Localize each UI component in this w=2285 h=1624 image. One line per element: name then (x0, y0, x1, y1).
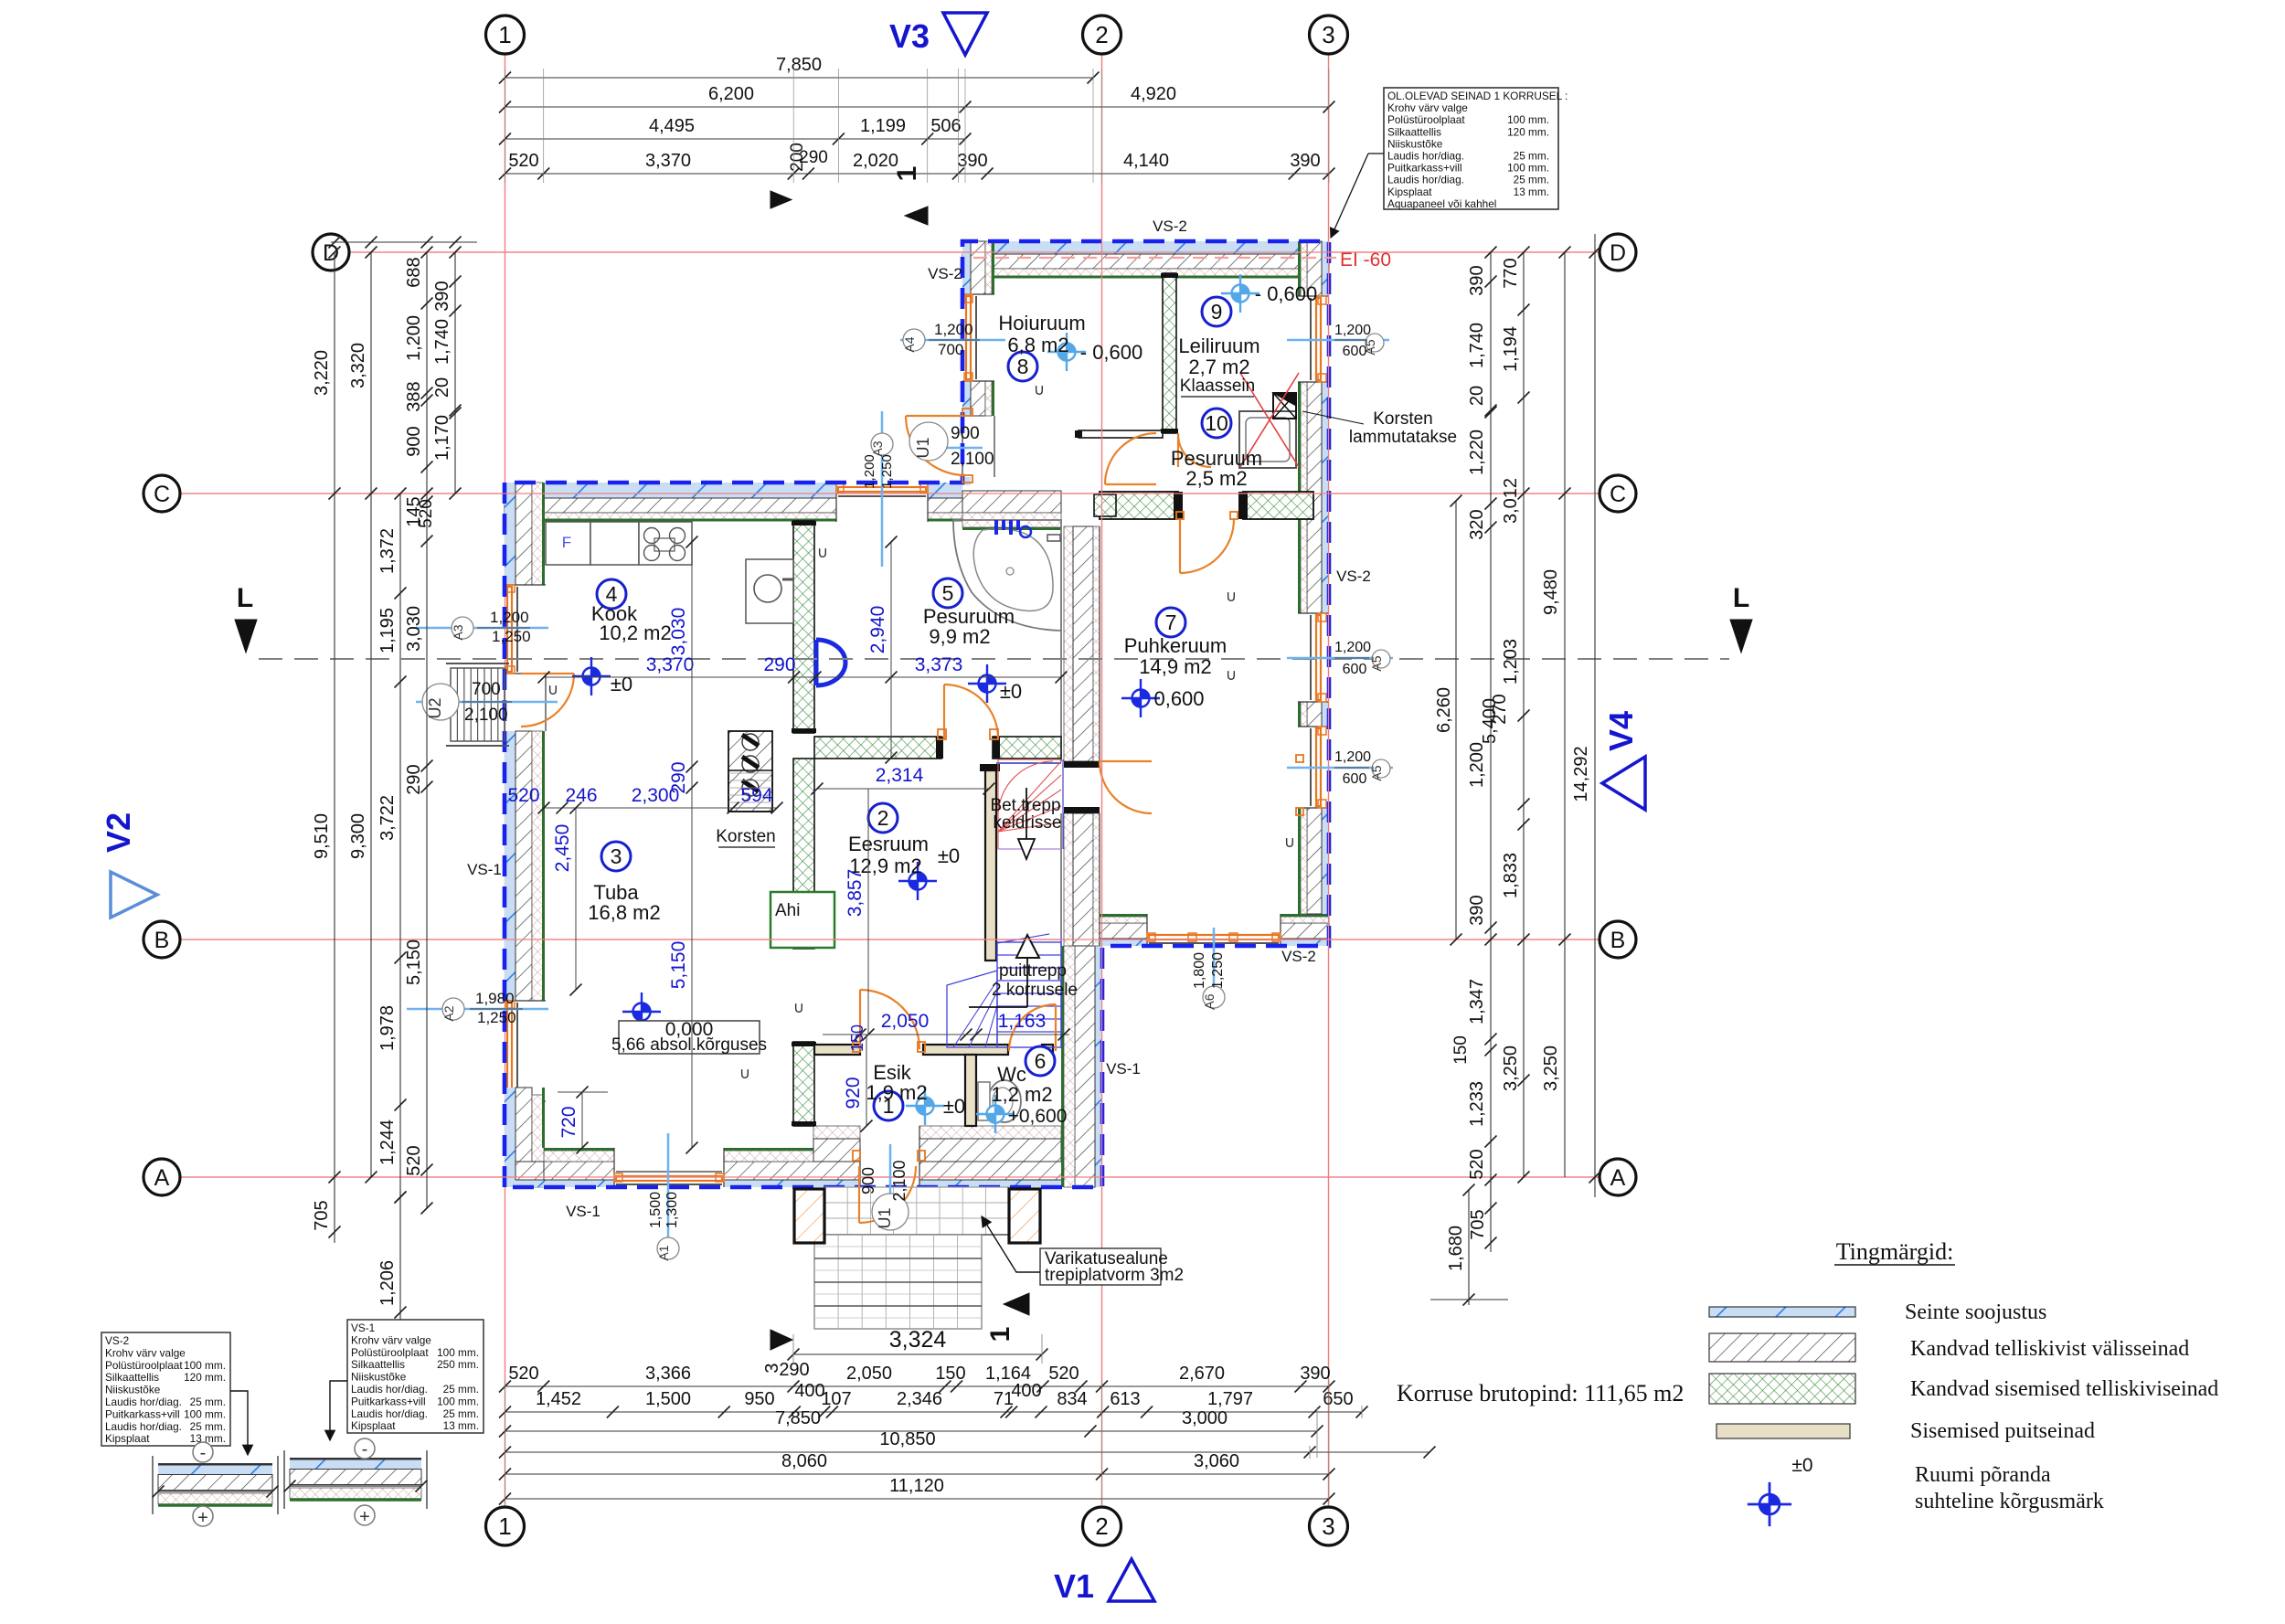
left chain 2 (370, 252, 372, 1177)
svg-text:3,370: 3,370 (645, 151, 691, 171)
legend wood wall (1716, 1424, 1850, 1438)
svg-text:U2: U2 (426, 697, 444, 718)
green wall W4 (kook|bath) (793, 521, 814, 733)
beige wall stair left (985, 770, 996, 961)
svg-text:390: 390 (1290, 151, 1320, 171)
grid row B (180, 939, 1599, 940)
svg-text:4,140: 4,140 (1123, 151, 1169, 171)
svg-text:5,66 absol.kõrguses: 5,66 absol.kõrguses (611, 1035, 767, 1055)
svg-text:1,9 m2: 1,9 m2 (866, 1081, 927, 1104)
svg-text:1,250: 1,250 (1210, 952, 1226, 989)
svg-text:Klaassein: Klaassein (1180, 377, 1255, 396)
A5 top axis (1287, 339, 1389, 342)
svg-text:1: 1 (498, 1513, 511, 1540)
svg-text:520: 520 (507, 785, 539, 806)
grid circle 3 bottom (1310, 1507, 1348, 1545)
svg-text:1,194: 1,194 (1501, 326, 1521, 372)
svg-text:1,195: 1,195 (377, 608, 398, 653)
svg-text:∪: ∪ (739, 1065, 750, 1082)
svg-text:688: 688 (404, 257, 424, 287)
grid circle 3 top (1310, 16, 1348, 54)
wall: puhkeruum bottom (exterior VS-2) (1100, 939, 1147, 946)
svg-text:705: 705 (312, 1200, 332, 1230)
svg-text:Laudis hor/diag.: Laudis hor/diag. (351, 1407, 428, 1420)
svg-text:2,314: 2,314 (876, 765, 924, 786)
Ahi stove (771, 892, 834, 948)
svg-text:9,510: 9,510 (312, 813, 332, 859)
svg-text:Tingmärgid:: Tingmärgid: (1836, 1238, 1954, 1265)
svg-text:∪: ∪ (1226, 666, 1237, 684)
svg-text:∪: ∪ (1284, 833, 1295, 851)
green wall W6 (below chimney) (793, 759, 814, 949)
svg-text:Krohv värv valge: Krohv värv valge (1387, 101, 1468, 114)
svg-text:3,250: 3,250 (1541, 1046, 1561, 1091)
porch post right (1009, 1189, 1040, 1243)
green corner block at bath top right (1094, 494, 1116, 516)
bottom chain row1 (505, 1385, 1330, 1387)
corner joint bottom-left (505, 1088, 515, 1187)
svg-text:∪: ∪ (1034, 381, 1045, 398)
svg-text:Eesruum: Eesruum (848, 833, 929, 855)
right chain 14292 (1594, 234, 1596, 1197)
svg-text:1,500: 1,500 (648, 1192, 664, 1228)
right chain coarse (1564, 252, 1566, 1177)
blue vert dim x975 bath (890, 542, 892, 758)
svg-text:5: 5 (942, 581, 954, 605)
svg-text:4,920: 4,920 (1131, 84, 1176, 104)
svg-text:2,100: 2,100 (951, 450, 994, 469)
svg-text:3,000: 3,000 (1182, 1408, 1228, 1428)
glass wall Klaassein (1079, 430, 1163, 438)
shower Pesuruum 2.5 (1239, 411, 1296, 468)
svg-text:keldrisse: keldrisse (994, 813, 1062, 833)
svg-text:390: 390 (432, 281, 452, 311)
svg-text:C: C (154, 482, 170, 507)
stair up arrow (1026, 958, 1028, 1007)
window A1 (bottom wall) (613, 1148, 615, 1187)
wall: lower right (exterior) (1095, 946, 1102, 1187)
blue dims esik (823, 1034, 1069, 1035)
wall: wing top (exterior VS-2) (962, 241, 1329, 254)
svg-text:2,050: 2,050 (881, 1011, 930, 1032)
svg-text:770: 770 (1501, 258, 1521, 288)
room 3 Tuba (601, 842, 631, 871)
door jambs orange (938, 729, 946, 739)
svg-text:Kandvad telliskivist välisse: Kandvad telliskivist välisseinad (1910, 1337, 2189, 1361)
wall: main block bottom (exterior VS-1) (544, 1180, 614, 1187)
svg-text:9,9 m2: 9,9 m2 (929, 625, 990, 648)
svg-text:Laudis hor/diag.: Laudis hor/diag. (351, 1383, 428, 1396)
svg-text:520: 520 (1048, 1364, 1079, 1384)
svg-text:Ahi: Ahi (775, 901, 800, 920)
blue dims row y884 (544, 807, 777, 809)
svg-text:3,366: 3,366 (645, 1364, 691, 1384)
svg-text:1: 1 (985, 1327, 1015, 1343)
svg-text:3: 3 (1322, 1513, 1334, 1540)
svg-text:290: 290 (763, 654, 795, 675)
left below A dims (334, 1177, 335, 1243)
door U1 entrance opening (859, 1148, 861, 1187)
door puhkeruum side (1100, 760, 1152, 762)
svg-text:7: 7 (1165, 610, 1177, 634)
room 7 Puhkeruum (1156, 608, 1185, 637)
svg-text:107: 107 (821, 1389, 851, 1409)
svg-text:lammutatakse: lammutatakse (1349, 428, 1457, 447)
svg-text:2,346: 2,346 (897, 1389, 942, 1409)
svg-text:6,8 m2: 6,8 m2 (1007, 334, 1068, 356)
right chain mid (1523, 252, 1525, 1177)
svg-text:Niiskustõke: Niiskustõke (105, 1384, 161, 1396)
elev puhkeruum (1121, 679, 1160, 717)
wall: wing left (exterior VS-2) (962, 241, 971, 294)
svg-text:613: 613 (1110, 1389, 1140, 1409)
svg-text:150: 150 (1451, 1035, 1471, 1065)
svg-text:VS-2: VS-2 (1153, 218, 1187, 235)
top dim 7850 (505, 77, 1094, 79)
svg-text:320: 320 (1467, 509, 1487, 539)
svg-text:VS-2: VS-2 (105, 1334, 129, 1347)
blue door symbol bath (816, 640, 845, 685)
svg-text:1,200: 1,200 (1334, 749, 1371, 765)
bottom dim 11120 (505, 1498, 1330, 1500)
door bath (eesruum->pesuruum) (943, 685, 945, 738)
svg-text:3: 3 (611, 844, 622, 868)
svg-text:Laudis hor/diag.: Laudis hor/diag. (1387, 174, 1464, 186)
svg-text:9: 9 (1211, 300, 1223, 324)
A3 left axis (416, 627, 548, 630)
svg-text:1,833: 1,833 (1501, 853, 1521, 898)
svg-text:Puitkarkass+vill: Puitkarkass+vill (105, 1407, 180, 1420)
svg-text:Niiskustõke: Niiskustõke (1387, 137, 1443, 150)
svg-text:1,220: 1,220 (1467, 430, 1487, 475)
svg-text:A5: A5 (1369, 765, 1384, 780)
svg-text:290: 290 (668, 761, 689, 793)
svg-text:290: 290 (779, 1360, 809, 1380)
svg-text:1: 1 (892, 166, 922, 182)
svg-text:Laudis hor/diag.: Laudis hor/diag. (1387, 150, 1464, 163)
window A3 (top wall) (835, 483, 837, 522)
bath tap right (1047, 535, 1060, 541)
svg-text:Korruse brutopind: 111,65 m2: Korruse brutopind: 111,65 m2 (1397, 1380, 1684, 1406)
green wall row C segments (wing bottom) (1100, 492, 1178, 519)
svg-text:1,200: 1,200 (490, 609, 529, 626)
grid circle 2 bottom (1083, 1507, 1121, 1545)
svg-text:520: 520 (1467, 1149, 1487, 1179)
corner bath (953, 520, 1061, 631)
elev eesruum (898, 862, 937, 900)
svg-text:±0: ±0 (938, 844, 960, 867)
svg-text:900: 900 (404, 426, 424, 456)
blue vert dim x757 (691, 542, 693, 808)
varikatus label (1040, 1248, 1161, 1285)
svg-text:VS-2: VS-2 (928, 265, 962, 282)
A1 axis (667, 1133, 670, 1254)
spec box VS-1 (347, 1320, 484, 1433)
svg-text:1,797: 1,797 (1207, 1389, 1253, 1409)
svg-text:100 mm.: 100 mm. (437, 1346, 479, 1359)
red X (korsten lammutatakse) (1240, 373, 1299, 467)
svg-text:Korsten: Korsten (1373, 409, 1432, 429)
legend green wall (1709, 1374, 1855, 1404)
svg-text:+: + (197, 1508, 208, 1528)
green wall W5 bath bottom (814, 737, 941, 759)
svg-text:520: 520 (404, 1145, 424, 1175)
svg-text:Puitkarkass+vill: Puitkarkass+vill (351, 1395, 426, 1407)
svg-text:600: 600 (1343, 662, 1367, 677)
grid circle 2 top (1083, 16, 1121, 54)
svg-text:F: F (562, 534, 571, 551)
window A5 top (1298, 295, 1329, 297)
svg-text:400: 400 (1011, 1381, 1041, 1401)
svg-text:120 mm.: 120 mm. (1507, 125, 1549, 138)
svg-text:120 mm.: 120 mm. (184, 1371, 226, 1384)
svg-text:6: 6 (1035, 1049, 1047, 1073)
svg-text:3,722: 3,722 (377, 795, 398, 841)
svg-text:-: - (200, 1443, 207, 1463)
svg-text:3,060: 3,060 (1194, 1451, 1239, 1471)
svg-text:2,050: 2,050 (846, 1364, 892, 1384)
svg-text:920: 920 (843, 1077, 864, 1109)
green wall Esik left (793, 1042, 814, 1126)
svg-text:3,857: 3,857 (845, 869, 866, 918)
svg-text:1: 1 (498, 21, 511, 48)
svg-text:3,012: 3,012 (1501, 478, 1521, 524)
svg-text:520: 520 (508, 1364, 538, 1384)
U1 entrance axis (889, 1144, 892, 1217)
svg-text:1,500: 1,500 (645, 1389, 691, 1409)
grid col 3 (1328, 54, 1330, 1507)
svg-text:VS-1: VS-1 (566, 1203, 600, 1220)
svg-text:L: L (237, 583, 253, 613)
svg-text:Aquapaneel või kahhel: Aquapaneel või kahhel (1387, 197, 1496, 210)
svg-text:1,978: 1,978 (377, 1005, 398, 1051)
svg-text:2,450: 2,450 (552, 824, 573, 873)
svg-text:11,120: 11,120 (889, 1476, 944, 1496)
svg-text:5,150: 5,150 (404, 939, 424, 985)
beige wall Esik/Wc top-right (923, 1045, 1008, 1055)
svg-text:1,200: 1,200 (1467, 742, 1487, 788)
svg-text:A: A (154, 1165, 170, 1191)
legend insulation (1709, 1307, 1855, 1317)
elev tuba (622, 992, 661, 1031)
top dim 4495/1199/506 (505, 138, 966, 140)
old chimney box (1273, 393, 1296, 419)
wall section VS-2 sample (152, 1456, 154, 1514)
svg-text:1,740: 1,740 (1467, 323, 1487, 368)
svg-text:U1: U1 (876, 1207, 894, 1228)
svg-text:1,200: 1,200 (1334, 323, 1371, 338)
svg-text:A4: A4 (902, 336, 917, 352)
svg-text:1,452: 1,452 (536, 1389, 581, 1409)
svg-text:A1: A1 (656, 1245, 671, 1260)
svg-text:1,250: 1,250 (477, 1009, 516, 1026)
wall: wing/puhkeruum right (exterior VS-2) (1322, 241, 1329, 296)
elev bath (968, 664, 1006, 703)
door leiliruum (1177, 433, 1179, 467)
svg-text:1,199: 1,199 (860, 116, 906, 136)
svg-text:290: 290 (404, 764, 424, 794)
svg-text:A3: A3 (870, 440, 885, 456)
svg-text:390: 390 (957, 151, 987, 171)
legend brick wall (1709, 1333, 1855, 1362)
left chain 5 (454, 252, 456, 494)
elev hoiuruum (1047, 333, 1086, 371)
svg-text:100 mm.: 100 mm. (1507, 113, 1549, 126)
svg-text:- 0,600: - 0,600 (1255, 282, 1318, 305)
svg-text:L: L (1733, 583, 1749, 613)
svg-text:1,2 m2: 1,2 m2 (991, 1083, 1052, 1106)
svg-text:1,200: 1,200 (934, 321, 973, 338)
svg-text:1,740: 1,740 (432, 319, 452, 365)
wc toilet (988, 1080, 1021, 1122)
grid row A (180, 1176, 1599, 1178)
svg-text:Korsten: Korsten (716, 827, 775, 846)
elev esik (906, 1087, 944, 1125)
svg-text:388: 388 (404, 381, 424, 411)
window A3 (left wall) (505, 584, 546, 586)
svg-text:Laudis hor/diag.: Laudis hor/diag. (105, 1420, 182, 1433)
wall: main block left (exterior VS-1) (505, 483, 515, 585)
svg-text:20: 20 (1467, 386, 1487, 406)
window A2 (left wall) (505, 1000, 546, 1002)
svg-text:V4: V4 (1602, 711, 1640, 751)
bottom chain row2 (505, 1411, 1363, 1413)
svg-text:10: 10 (1205, 411, 1228, 435)
svg-text:250 mm.: 250 mm. (437, 1358, 479, 1371)
wall: bath top (under wing) (962, 491, 1061, 513)
svg-text:7,850: 7,850 (775, 1408, 821, 1428)
svg-text:5,400: 5,400 (1480, 698, 1500, 744)
svg-text:25 mm.: 25 mm. (1514, 150, 1549, 163)
svg-text:2 korrusele: 2 korrusele (992, 981, 1078, 1000)
wall section VS-1 sample (283, 1450, 285, 1509)
svg-text:±0: ±0 (1791, 1455, 1812, 1476)
svg-text:600: 600 (1343, 771, 1367, 787)
bottom dim 3324 (793, 1353, 1042, 1355)
svg-text:25 mm.: 25 mm. (1514, 174, 1549, 186)
svg-text:720: 720 (558, 1106, 579, 1138)
door pesuruum 2.5 (1105, 483, 1156, 485)
svg-text:16,8 m2: 16,8 m2 (588, 901, 661, 924)
chimney block Korsten (728, 731, 772, 812)
svg-text:9,300: 9,300 (348, 813, 368, 859)
svg-text:9,480: 9,480 (1541, 569, 1561, 615)
svg-text:A5: A5 (1369, 655, 1384, 671)
svg-text:650: 650 (1323, 1389, 1353, 1409)
svg-text:25 mm.: 25 mm. (443, 1407, 479, 1420)
svg-text:1,244: 1,244 (377, 1120, 398, 1165)
svg-text:8: 8 (1017, 355, 1029, 378)
svg-text:Silkaattellis: Silkaattellis (105, 1371, 159, 1384)
svg-text:Hoiuruum: Hoiuruum (998, 312, 1085, 334)
elev kook (572, 657, 611, 695)
svg-text:400: 400 (794, 1381, 824, 1401)
svg-text:506: 506 (930, 116, 961, 136)
EI-60 pink dashed fire line (973, 257, 1336, 259)
grid circle B right (1599, 921, 1636, 958)
right below A (1490, 1177, 1492, 1252)
svg-text:14,9 m2: 14,9 m2 (1139, 655, 1212, 678)
svg-text:A2: A2 (441, 1005, 456, 1021)
U2 axis (416, 701, 558, 704)
svg-text:6,260: 6,260 (1434, 687, 1454, 733)
svg-text:D: D (1610, 240, 1626, 266)
window A5 low (1298, 726, 1329, 727)
svg-text:VS-1: VS-1 (351, 1321, 375, 1334)
svg-text:900: 900 (859, 1167, 877, 1194)
section line L (259, 658, 1729, 660)
svg-text:suhteline kõrgusmärk: suhteline kõrgusmärk (1915, 1490, 2104, 1513)
concrete basement stair (1062, 759, 1064, 849)
room 2 Eesruum (868, 803, 898, 833)
beige wall Esik top-left (814, 1045, 860, 1055)
svg-text:puittrepp: puittrepp (999, 961, 1067, 981)
svg-text:+0,600: +0,600 (1008, 1106, 1068, 1127)
porch steps (814, 1235, 982, 1329)
svg-text:VS-2: VS-2 (1336, 568, 1371, 585)
blue dim 2314 (817, 788, 989, 790)
svg-text:V2: V2 (100, 812, 137, 853)
svg-text:Polüstüroolplaat: Polüstüroolplaat (105, 1359, 183, 1372)
svg-text:Bet.trepp: Bet.trepp (990, 796, 1060, 815)
svg-text:Polüstüroolplaat: Polüstüroolplaat (351, 1346, 429, 1359)
svg-text:6,200: 6,200 (708, 84, 754, 104)
svg-text:B: B (1610, 928, 1626, 953)
svg-text:VS-1: VS-1 (1106, 1060, 1141, 1077)
svg-text:1,200: 1,200 (404, 315, 424, 361)
svg-text:Polüstüroolplaat: Polüstüroolplaat (1387, 113, 1465, 126)
door puhkeruum top (1179, 519, 1181, 573)
door U2 kook (521, 673, 574, 674)
basement stair down arrow (1026, 788, 1027, 839)
svg-text:950: 950 (744, 1389, 774, 1409)
svg-text:Silkaattellis: Silkaattellis (351, 1358, 405, 1371)
svg-text:2: 2 (1095, 1513, 1108, 1540)
wooden stair puittrepp (997, 942, 1061, 1047)
svg-text:1,206: 1,206 (377, 1260, 398, 1306)
svg-text:3,030: 3,030 (668, 608, 689, 656)
svg-text:∪: ∪ (817, 544, 828, 561)
room 10 Pesuruum2 (1202, 409, 1231, 438)
svg-text:10,2 m2: 10,2 m2 (599, 621, 672, 644)
interior thick wall W1 (bath|puhkeruum) (1064, 526, 1073, 761)
svg-text:520: 520 (417, 499, 436, 528)
svg-text:2,100: 2,100 (464, 706, 508, 725)
svg-text:290: 290 (799, 148, 828, 167)
svg-text:14,292: 14,292 (1571, 746, 1591, 801)
left chain 4 (426, 252, 428, 1208)
entrance door leaf+arc (858, 1166, 860, 1223)
svg-text:390: 390 (1300, 1364, 1330, 1384)
svg-text:Ruumi põranda: Ruumi põranda (1915, 1463, 2051, 1487)
svg-text:3,250: 3,250 (1501, 1046, 1521, 1091)
svg-text:900: 900 (951, 424, 980, 443)
svg-text:100 mm.: 100 mm. (437, 1395, 479, 1407)
svg-text:2: 2 (1095, 21, 1108, 48)
svg-text:Puhkeruum: Puhkeruum (1124, 634, 1228, 657)
svg-text:10,850: 10,850 (879, 1429, 935, 1449)
svg-text:7,850: 7,850 (776, 55, 822, 75)
beige stub at stair right (1042, 1045, 1053, 1055)
svg-text:1,800: 1,800 (1192, 952, 1207, 989)
left chain 1 (334, 252, 335, 1177)
green wall W2 (Hoiuruum|Leiliruum) (1163, 273, 1176, 433)
svg-text:±0: ±0 (1000, 680, 1022, 703)
svg-text:A6: A6 (1202, 993, 1217, 1009)
svg-text:1,250: 1,250 (492, 628, 531, 645)
svg-text:Puitkarkass+vill: Puitkarkass+vill (1387, 162, 1462, 175)
svg-text:A3: A3 (451, 624, 465, 640)
